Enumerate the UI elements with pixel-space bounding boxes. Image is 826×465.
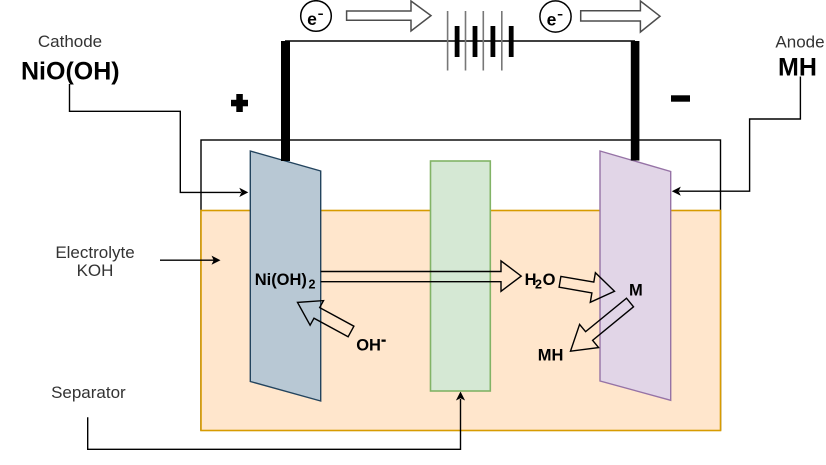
electrolyte pointer arrow	[160, 259, 214, 261]
separator plate	[431, 161, 491, 391]
svg-text:Electrolyte: Electrolyte	[55, 243, 134, 262]
anode pointer line	[679, 77, 800, 192]
electron circle right	[540, 1, 571, 32]
battery B1 plates	[448, 11, 514, 71]
electrolyte tank	[201, 211, 721, 431]
electron flow arrow left	[347, 1, 431, 31]
svg-text:M: M	[629, 281, 643, 299]
reaction arrow H2O to M	[559, 273, 614, 303]
plus terminal sign	[231, 94, 248, 112]
svg-text:MH: MH	[538, 347, 564, 365]
svg-text:Ni(OH): Ni(OH)	[255, 271, 307, 289]
label OH-	[356, 337, 386, 355]
minus terminal sign	[671, 95, 690, 101]
label H2O	[525, 271, 556, 292]
cathode pointer line	[70, 84, 242, 192]
label Ni(OH)2	[255, 271, 316, 291]
svg-text:e: e	[547, 10, 557, 30]
anode plate MH	[600, 151, 671, 400]
cathode plate Ni(OH)2	[250, 151, 320, 401]
svg-text:Anode: Anode	[775, 33, 824, 52]
svg-text:e: e	[307, 9, 317, 29]
svg-text:2: 2	[535, 278, 542, 292]
svg-text:MH: MH	[778, 54, 817, 82]
svg-text:Separator: Separator	[51, 383, 126, 402]
electron circle left	[301, 1, 332, 32]
reaction arrow M to MH	[571, 298, 634, 351]
separator pointer line	[88, 399, 461, 449]
svg-text:Cathode: Cathode	[38, 32, 102, 51]
reaction arrow Ni(OH)2 to H2O	[321, 261, 522, 291]
svg-text:2: 2	[309, 278, 316, 292]
reaction arrow OH- to cathode	[298, 301, 354, 337]
svg-text:OH: OH	[356, 337, 381, 355]
electron flow arrow right	[581, 1, 660, 32]
svg-text:KOH: KOH	[77, 261, 114, 280]
wire	[285, 40, 635, 42]
svg-text:NiO(OH): NiO(OH)	[21, 58, 120, 86]
anode terminal bar	[631, 41, 640, 161]
container cell box	[201, 140, 721, 430]
svg-text:O: O	[543, 271, 556, 289]
cathode terminal bar	[281, 41, 290, 161]
